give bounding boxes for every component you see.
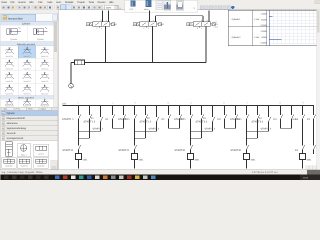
svg-text:1Y1: 1Y1 — [87, 23, 90, 26]
svg-text:START2 3: START2 3 — [148, 127, 159, 130]
svg-text:5: 5 — [143, 27, 144, 30]
svg-text:n.G: n.G — [130, 8, 134, 11]
svg-text:Ventil 5/2: Ventil 5/2 — [23, 92, 30, 95]
svg-text:START31: START31 — [174, 149, 186, 152]
svg-text:Seite: Seite — [47, 1, 53, 4]
svg-text:Zylinder1: Zylinder1 — [231, 18, 241, 21]
svg-text:Ansicht: Ansicht — [18, 1, 26, 4]
svg-text:5: 5 — [197, 27, 198, 30]
svg-text:Ventil 4/2: Ventil 4/2 — [41, 67, 48, 70]
svg-text:Motor 1: Motor 1 — [21, 153, 27, 156]
svg-text:2: 2 — [153, 19, 154, 22]
svg-text:16:59: 16:59 — [303, 176, 309, 179]
svg-text:Ventil 5/2: Ventil 5/2 — [23, 67, 30, 70]
svg-text:Projekt: Projekt — [77, 1, 85, 4]
svg-text:4: 4 — [148, 19, 149, 22]
svg-text:Hydr.: Hydr. — [3, 108, 8, 111]
svg-text:START3 1: START3 1 — [174, 118, 186, 121]
svg-text:Ventil 5/2: Ventil 5/2 — [37, 165, 44, 168]
svg-text:Sensorik: Sensorik — [7, 132, 17, 135]
svg-text:4,0000: 4,0000 — [261, 13, 267, 16]
svg-text:Ventil 3/2: Ventil 3/2 — [6, 104, 13, 107]
svg-text:Elektr.: Elektr. — [28, 108, 34, 111]
svg-text:1 mm: 1 mm — [254, 18, 259, 21]
svg-text:Ventil 4/2: Ventil 4/2 — [41, 80, 48, 83]
svg-text:2,0000: 2,0000 — [261, 18, 267, 21]
svg-text:Datei: Datei — [2, 1, 8, 4]
svg-text:START4 1: START4 1 — [230, 118, 242, 121]
svg-text:Zylinder: Zylinder — [37, 38, 44, 41]
svg-text:Pneu.: Pneu. — [16, 108, 21, 111]
svg-text:100%: 100% — [106, 7, 112, 10]
svg-text:2Y1: 2Y1 — [134, 23, 137, 26]
svg-text:4: 4 — [201, 19, 202, 22]
svg-text:Magnetventile/Off.: Magnetventile/Off. — [7, 117, 26, 120]
svg-text:1,0000: 1,0000 — [261, 36, 267, 39]
svg-text:Mech. operated: Mech. operated — [18, 96, 34, 99]
svg-text:Didaktik: Didaktik — [65, 1, 74, 4]
svg-text:Zylinder: Zylinder — [22, 22, 31, 25]
svg-text:Sonstige/Anschl.: Sonstige/Anschl. — [7, 137, 25, 140]
svg-text:START11: START11 — [62, 149, 73, 152]
svg-text:Tools: Tools — [89, 1, 95, 4]
svg-text:4: 4 — [101, 19, 102, 22]
svg-text:Bibl.: Bibl. — [29, 1, 34, 4]
svg-text:Ventil 5/2: Ventil 5/2 — [23, 104, 30, 107]
svg-text:5: 5 — [96, 27, 97, 30]
svg-text:0,0000: 0,0000 — [261, 42, 267, 45]
svg-text:mbar: mbar — [144, 8, 149, 11]
svg-text:Zylinder: Zylinder — [7, 112, 16, 115]
svg-text:Ventil 3/2: Ventil 3/2 — [6, 80, 13, 83]
svg-text:Ventil 4/2: Ventil 4/2 — [41, 92, 48, 95]
svg-text:1: 1 — [201, 27, 202, 30]
svg-text:3Y1: 3Y1 — [187, 23, 190, 26]
svg-text:START4 3: START4 3 — [260, 127, 271, 130]
svg-text:zug.: Linkstaste b.legt, Doppe: zug.: Linkstaste b.legt, Doppelkl.: Öffn… — [2, 171, 44, 174]
svg-text:Ventil 5/2: Ventil 5/2 — [5, 165, 12, 168]
svg-text:Ventil 3/2: Ventil 3/2 — [6, 55, 13, 58]
svg-text:0,0000: 0,0000 — [261, 24, 267, 27]
svg-text:Fenster: Fenster — [98, 1, 106, 4]
svg-text:2: 2 — [207, 19, 208, 22]
svg-text:Signalverarbeitung: Signalverarbeitung — [7, 127, 27, 130]
svg-text:Digital: Digital — [41, 108, 47, 111]
svg-text:START1 3: START1 3 — [92, 127, 103, 130]
svg-text:1A1: 1A1 — [213, 21, 216, 24]
svg-text:Ventil 5/2: Ventil 5/2 — [23, 80, 30, 83]
svg-text:Ventil 5/2: Ventil 5/2 — [23, 55, 30, 58]
svg-text:4M1: 4M1 — [307, 158, 312, 161]
svg-text:2M1: 2M1 — [139, 158, 144, 161]
svg-text:Einf.: Einf. — [38, 1, 43, 4]
svg-text:1: 1 — [148, 27, 149, 30]
svg-text:Ausf.: Ausf. — [56, 1, 62, 4]
svg-text:Ventil 3/2: Ventil 3/2 — [6, 67, 13, 70]
svg-text:Edit: Edit — [10, 1, 14, 4]
svg-text:Ventil 4/2: Ventil 4/2 — [41, 55, 48, 58]
svg-text:x mm: x mm — [213, 26, 218, 28]
svg-text:START21: START21 — [118, 149, 130, 152]
svg-text:2: 2 — [106, 19, 107, 22]
svg-text:1 mm: 1 mm — [254, 36, 259, 39]
svg-text:Ventil 4/2: Ventil 4/2 — [41, 104, 48, 107]
svg-text:1M1: 1M1 — [83, 158, 88, 161]
svg-text:3M1: 3M1 — [195, 158, 200, 161]
svg-text:Standard-Bibli.: Standard-Bibli. — [8, 17, 23, 20]
svg-text:START2 1: START2 1 — [118, 118, 130, 121]
svg-text:24V: 24V — [62, 102, 67, 105]
svg-text:Aktuatoren: Aktuatoren — [7, 122, 19, 125]
svg-text:Hilfe: Hilfe — [109, 1, 114, 4]
svg-text:START1 1: START1 1 — [62, 118, 74, 121]
svg-text:4M1: 4M1 — [251, 158, 256, 161]
svg-text:START3 3: START3 3 — [204, 127, 215, 130]
svg-text:1: 1 — [101, 27, 102, 30]
svg-text:Manually operated: Manually operated — [17, 43, 36, 46]
svg-text:Zylinder2: Zylinder2 — [231, 36, 241, 39]
svg-text:Ventil 1: Ventil 1 — [38, 152, 44, 155]
svg-text:4:07:38 mm 9=0,577 mm: 4:07:38 mm 9=0,577 mm — [252, 171, 278, 174]
svg-text:Ventil 5/2: Ventil 5/2 — [21, 165, 28, 168]
svg-text:2,0000: 2,0000 — [261, 30, 267, 33]
svg-text:Zylinder: Zylinder — [10, 38, 17, 41]
svg-text:Ventil 3/2: Ventil 3/2 — [6, 92, 13, 95]
svg-text:START41: START41 — [230, 149, 242, 152]
